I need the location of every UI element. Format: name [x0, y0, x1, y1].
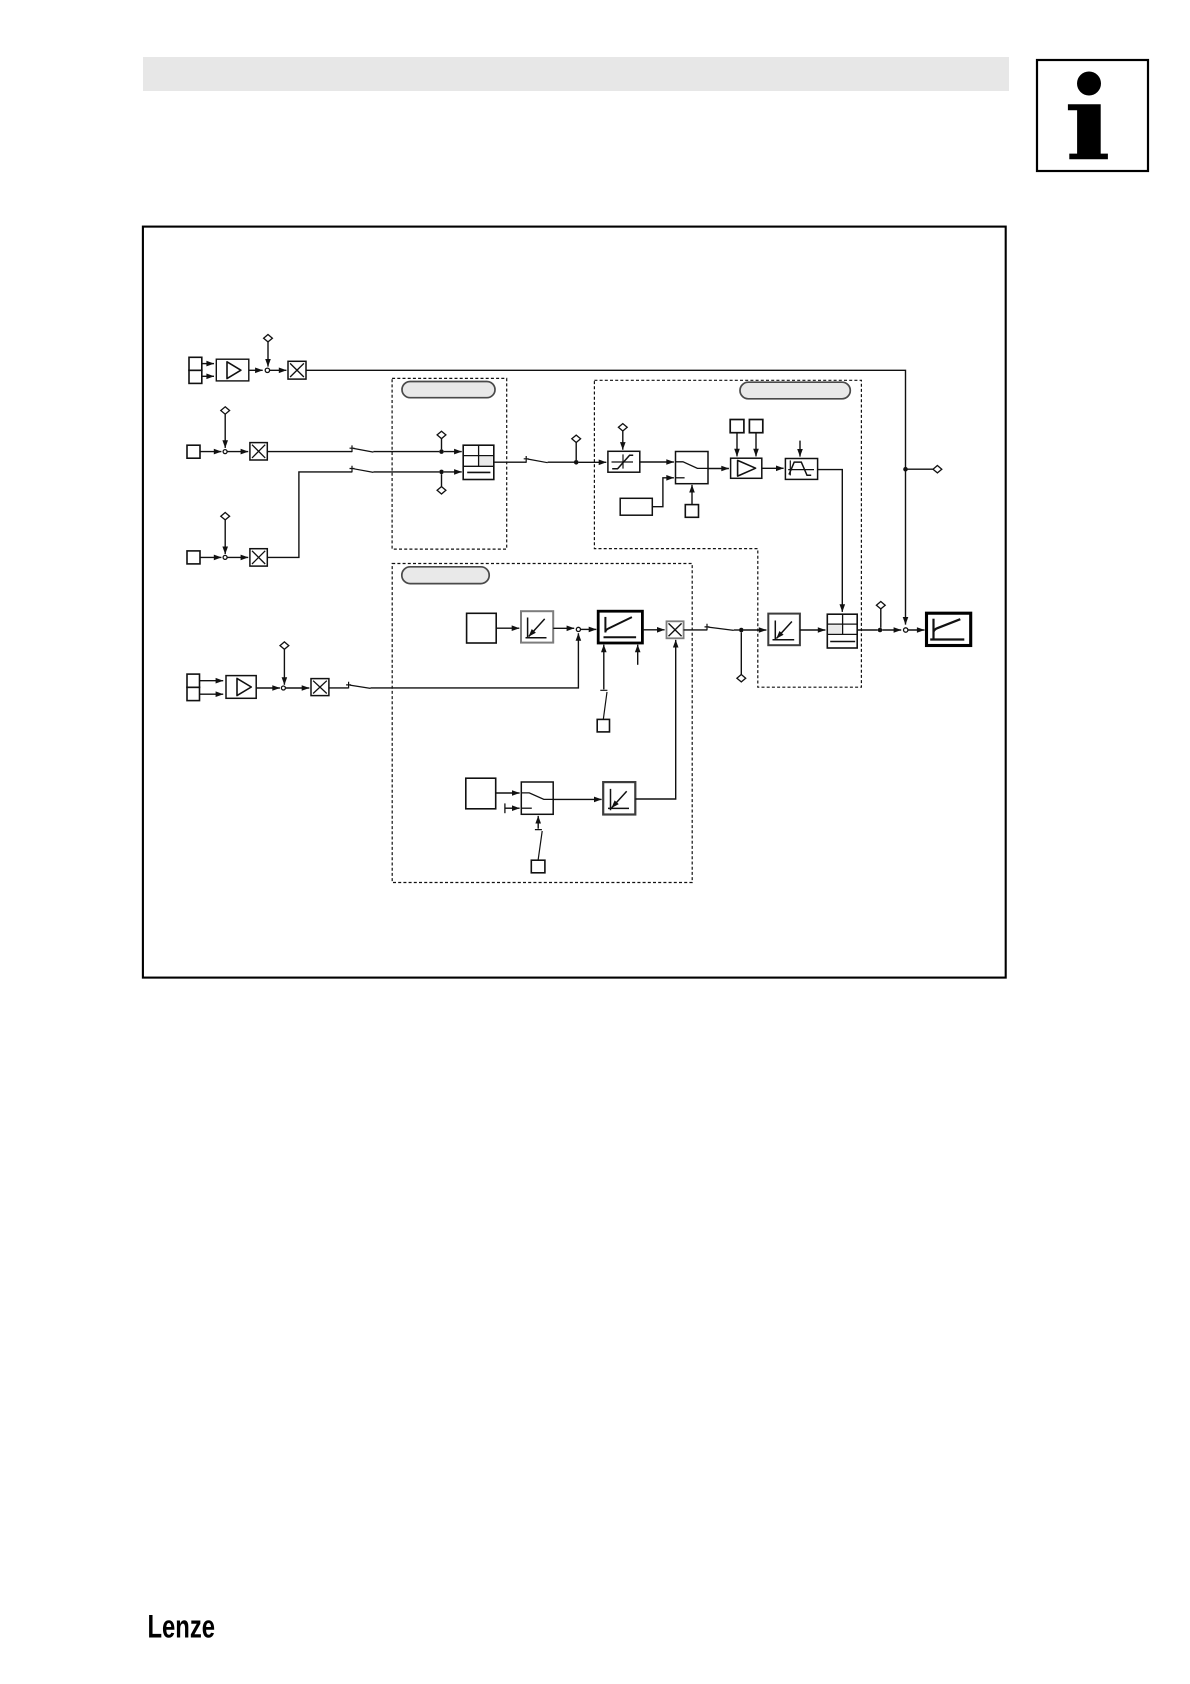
wire switch to dot	[734, 629, 739, 631]
amplifier3 U3	[226, 676, 256, 699]
node row1	[265, 368, 269, 372]
arrow curve2 to T2	[800, 629, 826, 631]
arrow SQB into amplifier2	[755, 433, 757, 457]
dashed region D3	[392, 564, 692, 883]
input square SQ5	[466, 778, 496, 809]
wire node to multiplier row4	[286, 687, 310, 689]
wire row3 riser to row2b	[267, 472, 352, 558]
arrow curve1 to node C2	[553, 627, 574, 629]
wire switch block to amplifier2	[708, 468, 729, 470]
arrow SQ4 riser into switch block2	[537, 816, 539, 829]
deadband block DB	[608, 451, 640, 472]
wire row4 riser into node C2	[371, 633, 579, 688]
wire T1 output to switch	[494, 461, 526, 463]
output node C5	[904, 628, 908, 632]
switch S1 row2	[350, 445, 374, 452]
arrow ramp to multiplier X5	[642, 629, 664, 631]
input square SQ2	[467, 613, 497, 643]
arrow switch block2 to curve3	[553, 798, 601, 800]
monitor diamond deadband row	[572, 435, 581, 442]
wire diamond down to node row4	[283, 649, 285, 685]
junction dot row2	[439, 449, 444, 454]
node row3	[223, 555, 227, 559]
junction dot main row	[739, 628, 744, 633]
row1 terminal block X3/1-2	[189, 357, 202, 383]
wire amp3 to node row4	[256, 687, 280, 689]
arrow SQ1 up into switch block	[691, 485, 693, 505]
row2 input square	[187, 445, 200, 458]
label pill P1	[402, 382, 495, 398]
arrow into T1 input1	[444, 451, 462, 453]
wire R1 to switch block lower input	[652, 478, 674, 507]
junction dot deadband row	[574, 460, 579, 465]
parameter diamond row3	[221, 513, 230, 520]
parameter diamond row2	[221, 407, 230, 414]
limiter block LIM	[785, 459, 817, 480]
select square SQ4 below switch block2	[531, 860, 545, 873]
wire X4 to switch row4	[329, 687, 349, 689]
wire row2 to switch	[267, 451, 352, 453]
multiplier X1 row1	[288, 361, 306, 379]
arrow C2 into ramp generator	[581, 628, 597, 630]
wire row1 terminal to amp lower	[202, 375, 214, 377]
wire X5 to switch	[684, 629, 707, 631]
switch blade SQ4 riser	[535, 830, 542, 861]
ramp generator RFG (bold)	[598, 611, 642, 643]
header gray bar	[143, 57, 1009, 91]
monitor diamond row2b below	[437, 487, 446, 494]
arrow dot to curve2	[744, 629, 767, 631]
label pill P3	[402, 567, 489, 584]
arrow amplifier2 to limiter	[762, 467, 784, 469]
wire square to node row3	[200, 556, 221, 558]
monitor diamond C0050	[933, 466, 942, 473]
parameter diamond row4	[280, 642, 289, 649]
short arrow into ramp bottom right	[637, 645, 639, 665]
switch S3 deadband row	[524, 456, 548, 463]
amplifier2 U2	[731, 458, 762, 478]
wire node to multiplier row3	[227, 556, 248, 558]
arrow SQ5 to switch block2	[496, 792, 520, 794]
parameter diamond above deadband	[618, 424, 627, 431]
curve block CRV1	[521, 611, 553, 642]
multiplier X3 row3	[250, 549, 267, 566]
arrow SQA into amplifier2	[736, 433, 738, 457]
constant rectangle R1	[620, 498, 652, 515]
tie dot to diamond row2	[441, 439, 443, 450]
final ramp block FIN (bold)	[927, 613, 971, 645]
curve block CRV2	[768, 614, 800, 646]
label pill P2	[740, 382, 850, 399]
switch blade SQ3 riser	[600, 690, 607, 719]
wire limiter down into T2 top	[818, 470, 843, 612]
arrow into limiter top	[799, 441, 801, 457]
tie dot to diamond output row	[880, 609, 882, 628]
wire switch to T1 row2b	[373, 471, 439, 473]
wire diamond down to node row1	[267, 342, 269, 367]
wire diamond down to node row3	[224, 520, 226, 554]
arrow diamond into deadband top	[622, 431, 624, 450]
wire row1 terminal to amp	[202, 363, 214, 365]
wire row4 terminal to amp upper	[200, 680, 224, 682]
parameter square SQB	[749, 420, 762, 433]
parameter diamond row1	[264, 335, 273, 342]
wire node to multiplier row1	[270, 369, 287, 371]
select square SQ3 below ramp	[597, 719, 609, 732]
switch block SWB2	[521, 782, 553, 814]
info icon box	[1037, 60, 1148, 171]
wire node to multiplier row2	[227, 451, 248, 453]
arrow C5 into final block	[908, 629, 925, 631]
arrow riser into ramp bottom	[603, 645, 605, 690]
parameter square SQA	[730, 420, 744, 433]
wire curve3 riser into X5 bottom	[635, 640, 675, 799]
node row4	[281, 686, 285, 690]
switch S2 row2b	[350, 466, 374, 473]
arrow tick into switch block2	[505, 807, 520, 809]
row4 terminal block	[187, 674, 200, 701]
tap wire to diamond	[906, 468, 933, 470]
function table T2	[827, 614, 857, 648]
switch S4 row4	[346, 682, 370, 689]
multiplier X5 (gray frame)	[667, 621, 684, 638]
tie dot to diamond deadband row	[575, 443, 577, 461]
wire row4 terminal to amp lower	[200, 693, 224, 695]
info icon i-stem	[1068, 104, 1108, 159]
wire square to node row2	[200, 451, 221, 453]
node row2	[223, 450, 227, 454]
wire diamond down to node row2	[224, 414, 226, 448]
node C2	[576, 627, 580, 631]
amplifier U1	[216, 359, 249, 381]
arrow deadband to switch block	[640, 461, 674, 463]
function table T1	[463, 445, 494, 479]
junction dot on feed line	[903, 467, 908, 472]
switch S5 main row	[705, 624, 734, 631]
wire switch to T1 row2	[373, 451, 439, 453]
select square SQ1	[685, 505, 698, 518]
monitor diamond main row	[737, 675, 746, 682]
wire row1 long feed to output node	[306, 370, 906, 624]
multiplier X2 row2	[250, 443, 267, 460]
wire amp to node	[249, 369, 263, 371]
junction dot row2b	[439, 470, 444, 475]
tie dot to diamond below	[740, 632, 742, 674]
tie dot to diamond row2b	[441, 474, 443, 486]
arrow into T1 input2	[444, 471, 462, 473]
arrow into deadband block	[579, 461, 607, 463]
monitor diamond output row	[876, 602, 885, 609]
dashed region D1	[392, 378, 507, 549]
junction dot output row	[878, 628, 883, 633]
tick input into switch block2	[504, 803, 506, 813]
monitor diamond row2	[437, 431, 446, 438]
switch block SWB1	[676, 452, 709, 484]
curve block CRV3	[603, 782, 635, 814]
wire T2 to dot	[857, 629, 878, 631]
diagram outer frame	[143, 227, 1006, 978]
arrow SQ2 to curve1	[496, 627, 519, 629]
svg-text:Lenze: Lenze	[148, 1609, 216, 1645]
arrow dot to output node C5	[882, 629, 901, 631]
row3 input square	[187, 551, 200, 564]
dashed region D2	[594, 380, 861, 687]
wire switch to deadband	[548, 461, 575, 463]
info icon i-dot	[1077, 72, 1101, 96]
multiplier X4 row4	[311, 679, 329, 696]
